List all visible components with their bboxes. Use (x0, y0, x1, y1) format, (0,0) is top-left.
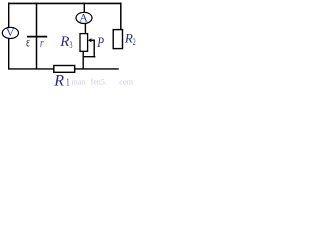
wire R3 bottom lead (82, 51, 84, 70)
wire wiper vertical (93, 40, 95, 58)
voltmeter V circle (2, 27, 18, 38)
wire wiper jog horizontal (83, 56, 96, 58)
svg-text:com: com (119, 78, 133, 87)
svg-text:R: R (124, 30, 133, 45)
svg-text:R: R (59, 34, 69, 50)
wire wiper shaft (90, 39, 95, 41)
svg-text:A: A (79, 10, 88, 24)
wire battery branch vertical (36, 3, 38, 70)
wire ammeter to R3 lead (84, 22, 86, 35)
svg-text:1: 1 (66, 77, 69, 88)
svg-text:R: R (53, 72, 64, 87)
resistor R1 box (54, 66, 75, 73)
svg-text:2: 2 (133, 38, 136, 48)
wire left vertical (8, 3, 10, 70)
svg-text:ε: ε (26, 36, 30, 51)
svg-text:P: P (96, 35, 104, 51)
resistor R3 box (80, 34, 88, 52)
svg-text:V: V (6, 25, 15, 39)
wire R2 top lead (120, 3, 122, 31)
wire bottom (8, 68, 119, 70)
resistor R2 box (113, 30, 122, 49)
ammeter A circle (76, 12, 92, 23)
arrowhead wiper P (88, 38, 92, 42)
svg-text:3: 3 (70, 41, 73, 51)
svg-text:man: man (72, 78, 86, 87)
wire top (8, 2, 122, 4)
wire ammeter branch top lead (83, 3, 85, 14)
battery cell plate (27, 36, 47, 38)
svg-text:fen5.: fen5. (91, 78, 107, 87)
